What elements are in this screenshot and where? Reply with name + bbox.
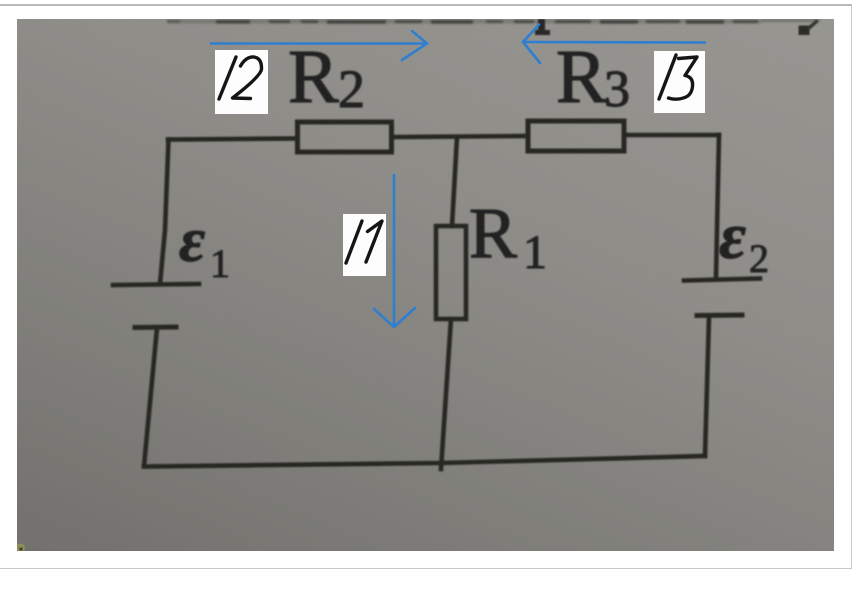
wire: e2 to bottom-right corner	[705, 317, 709, 456]
white label box I2	[215, 50, 268, 114]
cropped letter descender (dark stem) above I3 arrow	[535, 19, 550, 35]
battery e1 short plate	[135, 325, 176, 331]
label R2	[288, 35, 365, 119]
handwritten I1	[346, 221, 382, 263]
battery e2 long plate	[684, 279, 760, 281]
label epsilon1	[179, 204, 230, 286]
handwritten I3	[659, 55, 697, 99]
circuit (photographed, blurry dark strokes)	[113, 121, 760, 469]
resistor R2	[298, 122, 392, 152]
wire: R3 to top-right corner	[624, 133, 719, 138]
white label box I1	[343, 214, 386, 276]
resistor R1	[436, 226, 466, 319]
battery e2 short plate	[697, 313, 742, 319]
wire: bottom horizontal	[144, 456, 705, 467]
battery e1 long plate	[113, 284, 199, 285]
current arrow I1 (blue, pointing down)	[374, 175, 415, 327]
cropped text remnants band at photo top	[167, 20, 820, 24]
wire: left vertical	[160, 140, 169, 285]
resistor R3	[528, 121, 624, 151]
label epsilon2	[719, 200, 769, 281]
small olive speck at photo bottom-left corner	[16, 544, 25, 552]
wire: R2 to R3 (through R1 junction)	[392, 136, 529, 137]
white label box I3	[654, 51, 705, 113]
current arrow I2 (blue, pointing right)	[211, 31, 427, 60]
wire: right vertical	[716, 135, 719, 277]
wire: e1 short plate to bottom-left corner	[144, 328, 157, 466]
wire: junction to R1	[452, 137, 457, 226]
label R1	[469, 193, 547, 279]
handwritten I2	[219, 57, 262, 99]
current arrow I3 (blue, pointing left)	[523, 25, 705, 64]
cropped check-like mark top right	[799, 21, 818, 36]
label R3	[556, 35, 630, 119]
wire: R1 to bottom wire	[441, 319, 451, 469]
wire: top-left horizontal	[168, 139, 297, 140]
